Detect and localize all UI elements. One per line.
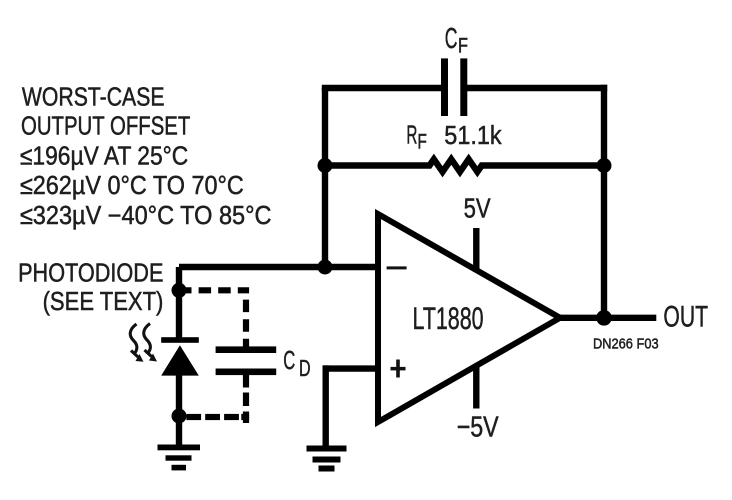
wire: dashed vertical from CD bottom plate bbox=[243, 375, 249, 423]
label PHOTODIODE (SEE TEXT) bbox=[18, 260, 163, 317]
junction: dashed box bottom on photodiode wire bbox=[172, 409, 187, 424]
junction: inverting input node at feedback vertical bbox=[318, 260, 333, 275]
svg-text:LT1880: LT1880 bbox=[413, 300, 484, 336]
wire: photodiode cathode up to inverting input bbox=[176, 267, 182, 338]
label CF bbox=[445, 23, 468, 58]
svg-text:51.1k: 51.1k bbox=[444, 122, 502, 150]
wire: output from op-amp apex bbox=[559, 315, 656, 321]
svg-text:C: C bbox=[445, 23, 458, 55]
svg-text:≤196µV AT 25°C: ≤196µV AT 25°C bbox=[20, 142, 188, 170]
junction: dashed box top on photodiode wire bbox=[172, 283, 187, 298]
svg-text:≤262µV 0°C TO 70°C: ≤262µV 0°C TO 70°C bbox=[20, 172, 244, 200]
svg-text:C: C bbox=[283, 347, 295, 375]
svg-text:−5V: −5V bbox=[457, 412, 500, 444]
wire: -5V supply stub bbox=[473, 364, 479, 409]
op-amp inverting pin marker (minus) bbox=[387, 266, 407, 269]
capacitor CD plates bbox=[216, 346, 277, 375]
wire: dashed bottom horizontal back to junction bbox=[186, 414, 249, 420]
ground: non-inverting input bbox=[307, 446, 347, 472]
junction: left feedback node at RF bbox=[318, 158, 333, 173]
svg-text:WORST-CASE: WORST-CASE bbox=[22, 84, 165, 112]
svg-text:PHOTODIODE: PHOTODIODE bbox=[18, 260, 163, 288]
ground: photodiode bbox=[158, 445, 201, 471]
wire: inverting input from photodiode to op-amp bbox=[179, 264, 378, 270]
capacitor CF plates bbox=[441, 58, 467, 116]
annotation: worst-case output offset note bbox=[20, 84, 272, 230]
wire: non-inverting input horizontal bbox=[323, 365, 379, 371]
svg-text:R: R bbox=[406, 121, 417, 149]
junction: output node bbox=[596, 310, 612, 326]
op-amp non-inverting pin marker (plus) bbox=[391, 360, 406, 378]
svg-text:F: F bbox=[458, 35, 468, 58]
svg-text:F: F bbox=[417, 129, 427, 153]
wire: dashed vertical down to CD top plate bbox=[243, 293, 249, 346]
label RF bbox=[406, 121, 427, 153]
op-amp U1 LT1880 triangle bbox=[378, 214, 560, 422]
wire: top feedback horizontal into CF left plate bbox=[322, 85, 442, 91]
svg-text:OUT: OUT bbox=[663, 300, 708, 333]
svg-text:5V: 5V bbox=[464, 193, 491, 224]
resistor RF zigzag with lead wires at y=165.5 bbox=[325, 159, 604, 172]
wire: right feedback vertical x=604 from y88 to output node bbox=[601, 85, 607, 318]
wire: top feedback, left vertical segment x=325 from y88 to y267 bbox=[322, 88, 328, 267]
wire: 5V supply stub bbox=[473, 228, 479, 272]
svg-text:D: D bbox=[299, 355, 311, 381]
light arrows (photon symbols) bbox=[130, 324, 157, 362]
label CD bbox=[283, 347, 310, 381]
photodiode D1 bbox=[161, 337, 199, 375]
svg-text:OUTPUT OFFSET: OUTPUT OFFSET bbox=[21, 113, 190, 141]
svg-text:≤323µV −40°C TO 85°C: ≤323µV −40°C TO 85°C bbox=[20, 202, 272, 230]
junction: right feedback node at RF bbox=[597, 158, 612, 173]
svg-text:DN266 F03: DN266 F03 bbox=[593, 335, 659, 352]
wire: photodiode anode down to ground bbox=[176, 374, 182, 445]
wire: non-inverting input down to ground bbox=[323, 365, 329, 446]
wire: CF right plate to right feedback vertical bbox=[467, 85, 607, 91]
wire: dashed top horizontal from junction to CD bbox=[179, 287, 249, 293]
svg-text:(SEE TEXT): (SEE TEXT) bbox=[43, 288, 164, 316]
